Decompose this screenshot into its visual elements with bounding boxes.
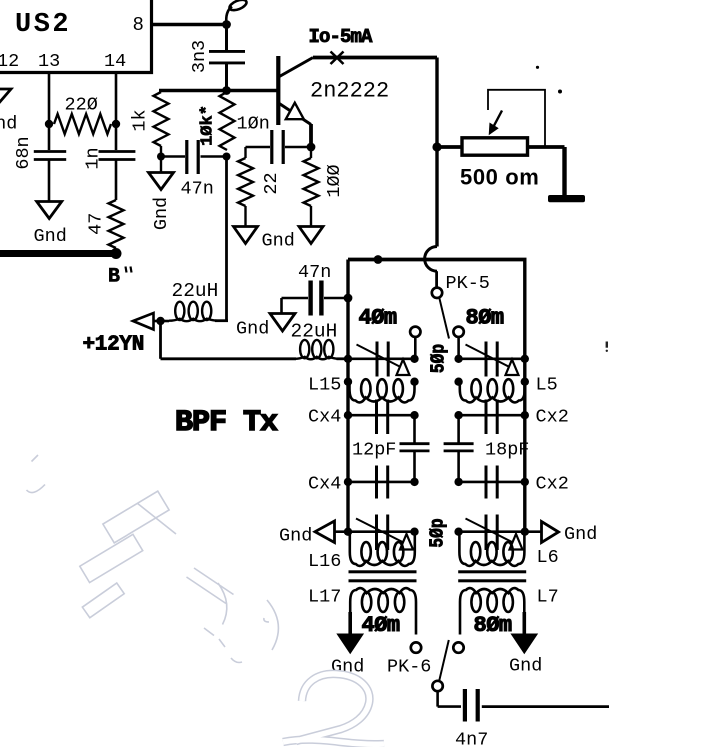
wire hop over bus xyxy=(425,247,437,272)
wire pin 14 xyxy=(115,74,118,124)
wire 14 to 1n xyxy=(115,124,118,150)
label 4n7 xyxy=(455,730,488,747)
switch PK-5 contact 80m xyxy=(453,327,463,337)
ground under 68n xyxy=(37,202,62,219)
transformer core left xyxy=(349,570,417,582)
label 10k* xyxy=(199,105,218,146)
wire 1n to 47 xyxy=(115,160,118,201)
svg-text:4Øm: 4Øm xyxy=(359,306,397,331)
wire hop stub xyxy=(435,271,438,288)
wire 3n3 bottom xyxy=(225,63,228,91)
wire row3 right xyxy=(459,414,525,417)
ground L17 xyxy=(338,635,362,653)
wire emitter down xyxy=(309,124,313,147)
ground 47n second xyxy=(270,314,295,332)
svg-text:8: 8 xyxy=(133,14,144,36)
label 10n xyxy=(237,114,270,135)
svg-text:Cx2: Cx2 xyxy=(536,407,569,428)
label Gnd left edge cut xyxy=(0,114,17,135)
svg-text:L16: L16 xyxy=(308,551,341,572)
label L5 xyxy=(536,375,558,396)
label 40m top xyxy=(359,306,397,331)
node +12 feed xyxy=(156,317,164,325)
wire contact 40m stub xyxy=(414,337,417,359)
nodes row4 xyxy=(344,478,529,486)
node pot tap xyxy=(432,142,441,151)
label 40m bottom xyxy=(362,613,400,638)
potentiometer wiper loop xyxy=(488,90,545,146)
wire 68n to gnd xyxy=(48,160,51,202)
trimmer capacitor 80m lower xyxy=(466,515,514,551)
wire L7 right drop xyxy=(522,612,526,635)
svg-text:3n3: 3n3 xyxy=(189,40,210,73)
inductor 22uH second xyxy=(295,340,339,359)
label 80m top xyxy=(466,306,504,331)
potentiometer wiper arrow xyxy=(489,111,502,136)
wire contact 80m stub xyxy=(457,337,460,359)
svg-text:PK-6: PK-6 xyxy=(387,657,431,678)
wire pin 13 xyxy=(48,74,51,124)
trimmer arrow 80m lower xyxy=(510,534,523,550)
label Gnd 22-100 xyxy=(262,231,295,252)
wire 47n gnd stub xyxy=(280,298,283,314)
svg-text:PK-5: PK-5 xyxy=(446,273,490,294)
label Cx4 lower xyxy=(308,474,341,495)
svg-text:5Øp: 5Øp xyxy=(427,518,449,547)
label L6 xyxy=(537,547,559,568)
inductor L16 xyxy=(350,532,415,566)
capacitor 47n first xyxy=(161,140,227,174)
svg-text:Gnd: Gnd xyxy=(262,231,295,252)
ground arrow right xyxy=(542,522,559,543)
label 50p top xyxy=(428,344,450,373)
svg-text:500 om: 500 om xyxy=(460,165,539,190)
wire bpf top bus xyxy=(348,258,527,262)
svg-text:Gnd: Gnd xyxy=(236,319,269,340)
nodes row2 xyxy=(344,378,529,386)
label 100 xyxy=(324,164,345,197)
label B-doubleprime xyxy=(108,266,132,289)
wire PK-6 to 4n7 xyxy=(438,705,461,708)
capacitor 47n second xyxy=(282,281,349,316)
wire 1k gnd stub xyxy=(160,157,162,173)
svg-text:14: 14 xyxy=(104,51,126,72)
transistor collector xyxy=(279,58,314,78)
label Gnd L7 xyxy=(509,656,542,677)
wire 13 to 68n xyxy=(48,124,51,150)
label 80m bottom xyxy=(474,613,512,638)
label 47n first xyxy=(181,179,214,200)
label 2n2222 xyxy=(310,79,389,104)
svg-text:Gnd: Gnd xyxy=(564,524,597,545)
trimmer arrow 40m lower xyxy=(400,534,413,550)
X mark on collector wire xyxy=(331,52,344,65)
wire bpf right vertical xyxy=(523,260,526,532)
node 10k bottom xyxy=(223,153,231,161)
speck i-mark xyxy=(606,342,608,352)
label 22uH first xyxy=(172,280,219,302)
label Gnd 47n second xyxy=(236,319,269,340)
wire 12pF top xyxy=(413,415,416,443)
svg-text:Gnd: Gnd xyxy=(279,526,312,547)
label Cx2 upper xyxy=(536,407,569,428)
switch PK-6 pivot xyxy=(432,681,442,691)
resistor 220 xyxy=(54,114,111,134)
wire pin 8 xyxy=(153,23,227,26)
arrow +12YN input xyxy=(133,313,154,330)
wire L17 left drop xyxy=(348,612,352,635)
svg-text:47n: 47n xyxy=(181,179,214,200)
label Gnd 68n xyxy=(34,226,67,247)
trimmer arrow 80m upper xyxy=(506,360,519,376)
wire row5 right xyxy=(459,530,542,533)
label Io-5mA xyxy=(309,26,374,48)
wire 3n3 top xyxy=(225,25,228,52)
svg-text:8Øm: 8Øm xyxy=(474,613,512,638)
wire pot gnd down xyxy=(562,147,566,196)
IC U_S2 body xyxy=(0,0,152,73)
resistor 10k* xyxy=(220,92,235,150)
svg-text:B: B xyxy=(108,266,120,289)
svg-text:Gnd: Gnd xyxy=(0,114,17,135)
nodes row3 xyxy=(344,411,529,419)
trimmer capacitor 80m upper xyxy=(466,342,513,377)
label Gnd right arrow xyxy=(564,524,597,545)
capacitor Cx2 upper xyxy=(486,400,497,435)
resistor 22 xyxy=(238,147,253,227)
potentiometer 500 om body xyxy=(462,138,528,155)
inductor L17 xyxy=(350,588,416,634)
node at pin8 wire xyxy=(222,20,231,29)
label PK-6 xyxy=(387,657,431,678)
ground under 100 xyxy=(299,227,323,244)
svg-text:22uH: 22uH xyxy=(291,321,338,343)
resistor 47 xyxy=(109,200,124,248)
label 12pF xyxy=(352,440,396,461)
svg-text:Io-5mA: Io-5mA xyxy=(309,26,374,48)
label Gnd L17 xyxy=(331,657,364,678)
wire row5 left xyxy=(335,530,415,533)
label 68n xyxy=(13,136,34,169)
wire down to 22uH row xyxy=(225,157,228,322)
svg-text:8Øm: 8Øm xyxy=(466,306,504,331)
svg-text:Gnd: Gnd xyxy=(34,226,67,247)
pin 14 label xyxy=(104,51,126,72)
capacitor Cx4 upper xyxy=(377,400,388,435)
wire 18pF top xyxy=(457,415,460,443)
capacitor 12pF xyxy=(400,444,430,451)
resistor 1k xyxy=(154,92,169,157)
node pin13 xyxy=(45,120,53,128)
bus thick wire B xyxy=(0,250,118,257)
label 1n xyxy=(83,147,104,169)
svg-text:1n: 1n xyxy=(83,147,104,169)
svg-text:2n2222: 2n2222 xyxy=(310,79,389,104)
svg-text:12: 12 xyxy=(0,51,19,72)
switch PK-6 contact 80m xyxy=(453,642,463,652)
node base row xyxy=(222,86,231,95)
white patch L7 left xyxy=(455,641,465,653)
ground arrow left xyxy=(315,521,335,543)
label L15 xyxy=(308,375,341,396)
wire pot out xyxy=(528,145,565,149)
pin 12 label xyxy=(0,51,19,72)
pin 8 label xyxy=(133,14,144,36)
inductor L7 xyxy=(460,588,524,634)
label 1k xyxy=(130,109,151,131)
label 22uH second xyxy=(291,321,338,343)
inductor top coil stub xyxy=(226,0,248,24)
label 47 xyxy=(86,213,107,235)
transistor 2n2222 base bar xyxy=(276,56,280,125)
trimmer capacitor 40m lower xyxy=(356,515,404,551)
label 220 xyxy=(65,95,98,116)
svg-text:+12YN: +12YN xyxy=(83,334,145,357)
label 500 om xyxy=(460,165,539,190)
svg-text:1ØØ: 1ØØ xyxy=(324,164,345,197)
svg-text:Cx4: Cx4 xyxy=(308,407,341,428)
wire bpf left vertical xyxy=(346,260,349,532)
inductor L15 xyxy=(350,379,415,402)
svg-text:Gnd: Gnd xyxy=(509,656,542,677)
capacitor 3n3 xyxy=(209,51,245,63)
svg-text:18pF: 18pF xyxy=(485,440,529,461)
node pin14 xyxy=(112,120,120,128)
svg-text:Cx2: Cx2 xyxy=(536,474,569,495)
label L7 xyxy=(537,587,559,608)
speck 1 xyxy=(536,66,539,69)
label L17 xyxy=(308,587,341,608)
svg-text:5Øp: 5Øp xyxy=(428,344,450,373)
speck 2 xyxy=(558,90,562,94)
switch PK-6 contact 40m xyxy=(411,642,421,652)
svg-text:L17: L17 xyxy=(308,587,341,608)
wire row1 right xyxy=(459,357,525,360)
wire row4 left xyxy=(348,481,415,484)
trimmer arrow 40m upper xyxy=(397,360,410,376)
svg-text:L5: L5 xyxy=(536,375,558,396)
switch PK-5 pivot xyxy=(432,288,442,298)
wire coil1 to vert xyxy=(215,319,228,322)
svg-text:Gnd: Gnd xyxy=(151,197,172,230)
trimmer capacitor 40m upper xyxy=(357,342,404,377)
switch PK-5 contact 40m xyxy=(410,327,420,337)
svg-text:US2: US2 xyxy=(15,10,71,40)
label 3n3 xyxy=(189,40,210,73)
node 47n bpf xyxy=(344,294,353,303)
label Cx2 lower xyxy=(536,474,569,495)
wire row1 left xyxy=(348,357,415,360)
wire base row xyxy=(159,89,277,93)
svg-text:L15: L15 xyxy=(308,375,341,396)
wire 4n7 out xyxy=(482,705,609,708)
capacitor Cx4 lower xyxy=(377,466,388,499)
inductor L6 xyxy=(459,532,524,566)
svg-text:BPF Tx: BPF Tx xyxy=(175,406,278,440)
wire 12pF bottom xyxy=(413,452,416,482)
svg-text:L6: L6 xyxy=(537,547,559,568)
node 1k bottom xyxy=(157,153,165,161)
capacitor Cx2 lower xyxy=(486,466,497,499)
white patch L17 right xyxy=(411,641,421,653)
wire collector out xyxy=(313,56,437,60)
watermark curves xyxy=(27,455,385,744)
node on top bus xyxy=(374,255,383,264)
ground L7 xyxy=(512,635,536,653)
capacitor 18pF xyxy=(444,444,474,451)
ground left edge cut xyxy=(0,89,11,104)
label +12YN xyxy=(83,334,145,357)
node emitter xyxy=(307,143,316,152)
capacitor 4n7 xyxy=(465,689,478,722)
svg-text:1Øn: 1Øn xyxy=(237,114,270,135)
label 18pF xyxy=(485,440,529,461)
svg-text:4Øm: 4Øm xyxy=(362,613,400,638)
ground under 22 xyxy=(234,227,258,244)
nodes row1 xyxy=(344,355,529,363)
svg-text:22Ø: 22Ø xyxy=(65,95,98,116)
svg-text:4n7: 4n7 xyxy=(455,730,488,747)
pin 13 label xyxy=(38,51,60,72)
wire +12 down xyxy=(159,321,162,359)
svg-text:47n: 47n xyxy=(298,262,331,283)
label Gnd left arrow xyxy=(279,526,312,547)
label 47n second xyxy=(298,262,331,283)
svg-text:Cx4: Cx4 xyxy=(308,474,341,495)
IC US2 label xyxy=(15,10,71,40)
label Gnd vertical xyxy=(151,197,172,230)
wire 18pF bottom xyxy=(457,452,460,482)
label PK-5 xyxy=(446,273,490,294)
svg-text:12pF: 12pF xyxy=(352,440,396,461)
svg-text:1k: 1k xyxy=(130,109,151,131)
nodes row5 xyxy=(344,528,529,536)
label BPF Tx xyxy=(175,406,278,440)
svg-text:68n: 68n xyxy=(13,136,34,169)
transistor emitter arrow xyxy=(286,103,304,120)
capacitor 10n xyxy=(246,130,310,164)
svg-text:22uH: 22uH xyxy=(172,280,219,302)
ground under 1k xyxy=(149,173,174,190)
svg-text:22: 22 xyxy=(261,172,282,194)
label L16 xyxy=(308,551,341,572)
wire row3 left xyxy=(348,414,415,417)
svg-text:13: 13 xyxy=(38,51,60,72)
resistor 100 xyxy=(304,147,319,227)
label Cx4 upper xyxy=(308,407,341,428)
capacitor 1n xyxy=(99,152,136,160)
wire collector down xyxy=(435,58,438,247)
wire coil2 to bpf xyxy=(337,357,349,360)
switch PK-6 blade xyxy=(439,640,449,681)
ground bar pot xyxy=(548,195,585,202)
transistor emitter xyxy=(279,103,312,125)
label 22 xyxy=(261,172,282,194)
transformer core right xyxy=(458,570,526,582)
svg-text:L7: L7 xyxy=(537,587,559,608)
switch PK-5 blade xyxy=(439,298,449,339)
wire arrow to coil xyxy=(154,320,170,323)
inductor L5 xyxy=(460,379,525,402)
node bus B xyxy=(111,248,122,259)
wire row4 right xyxy=(459,481,525,484)
wire PK-6 down xyxy=(436,691,439,706)
svg-text:47: 47 xyxy=(86,213,107,235)
wire to pot xyxy=(439,145,462,149)
wire +12 row xyxy=(161,357,297,360)
svg-text:1Øk*: 1Øk* xyxy=(199,105,218,146)
label 50p lower xyxy=(427,518,449,547)
inductor 22uH first xyxy=(169,302,218,322)
capacitor 68n xyxy=(34,152,66,160)
